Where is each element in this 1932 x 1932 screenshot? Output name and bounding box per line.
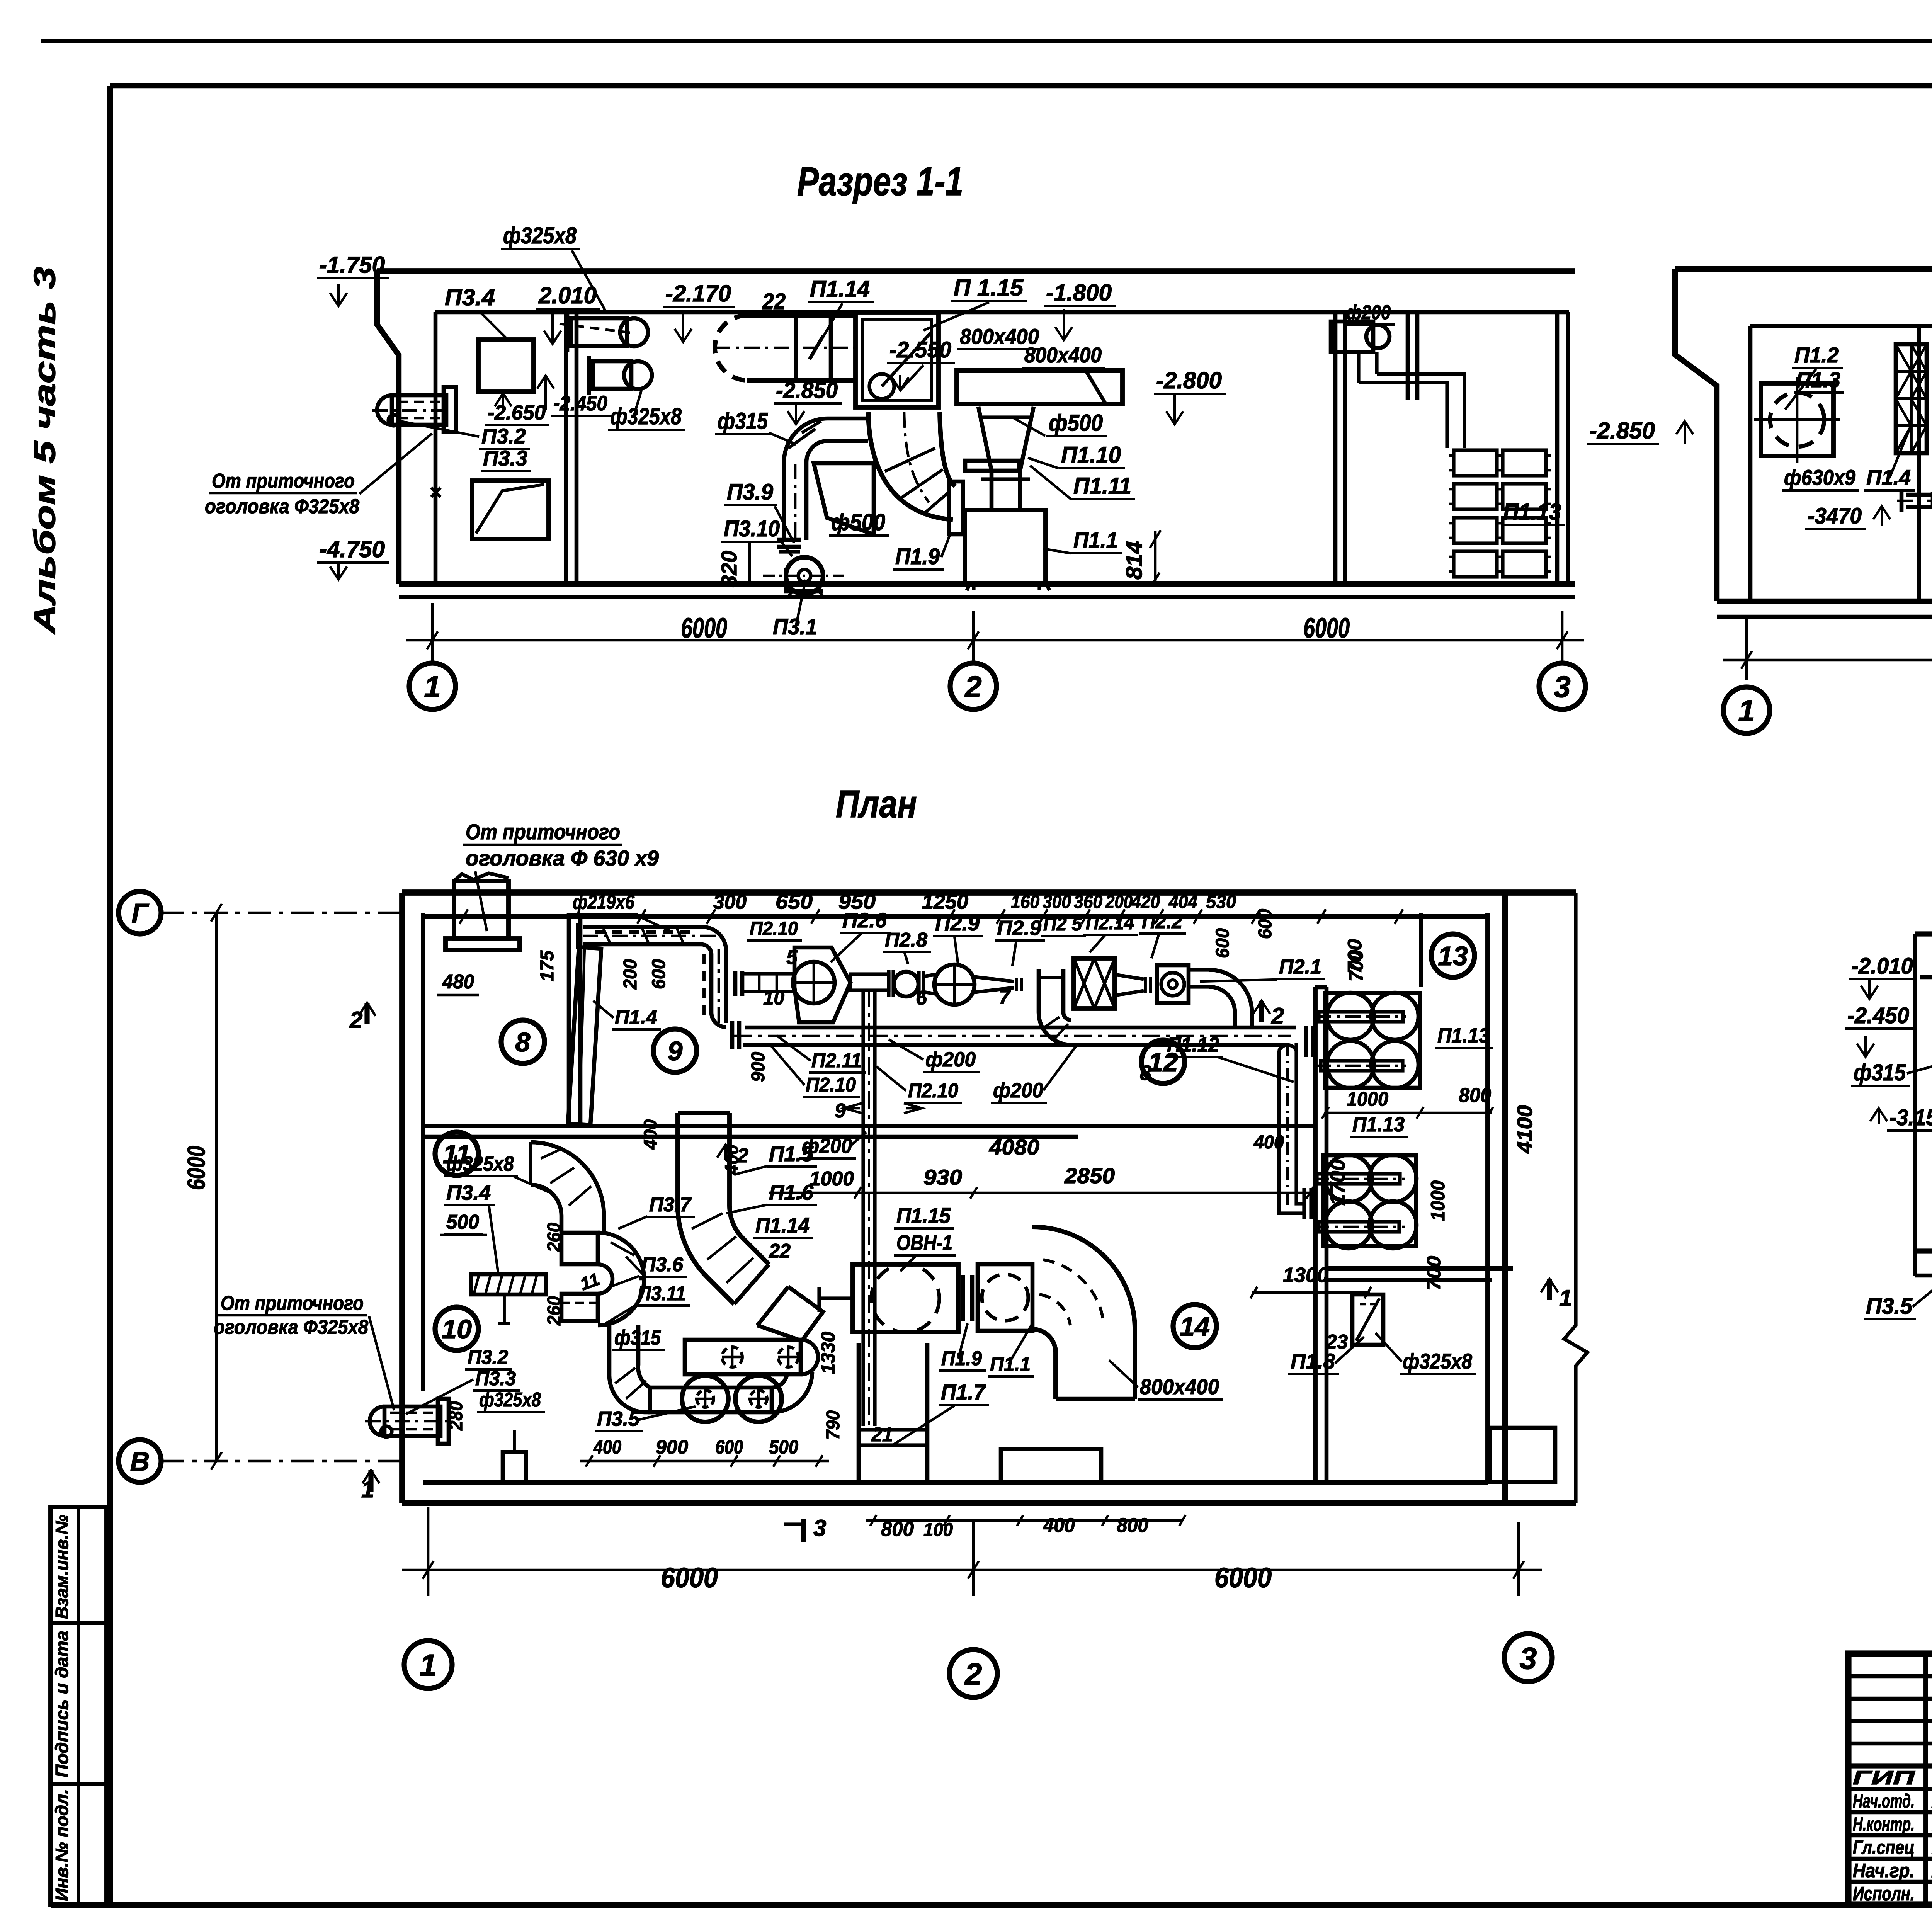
pipe ф219x6 horizontal	[1897, 471, 1932, 512]
duct П1.14 round end	[715, 315, 855, 380]
svg-text:9: 9	[835, 1100, 846, 1122]
label -2.170	[663, 281, 735, 342]
svg-text:9: 9	[668, 1036, 683, 1066]
room circle 12	[1141, 1040, 1185, 1083]
svg-text:ОВН-1: ОВН-1	[896, 1230, 952, 1255]
label П1.15	[923, 275, 1027, 330]
label П1.11	[1030, 466, 1135, 499]
svg-text:П1.1: П1.1	[1073, 528, 1118, 553]
duct П1.10 П1.11 vertical	[965, 461, 1030, 510]
axis Г	[119, 891, 402, 934]
plan axis circle 2	[949, 1650, 997, 1697]
grille with stem П3.4 plan	[471, 1274, 546, 1323]
labels П2.11 П2.10 mid	[777, 1036, 866, 1073]
label ф500 right	[1012, 410, 1107, 436]
svg-text:Гл.спец: Гл.спец	[1853, 1837, 1915, 1858]
interior wall right horizontal	[1327, 1266, 1513, 1271]
svg-text:4100: 4100	[1512, 1105, 1537, 1154]
svg-text:П1.3: П1.3	[1796, 367, 1840, 392]
svg-text:600: 600	[715, 1436, 743, 1458]
dim line mid	[769, 1187, 1315, 1199]
svg-text:1: 1	[1738, 694, 1755, 728]
svg-text:П1.4: П1.4	[615, 1006, 657, 1029]
labels П2 chain plan	[747, 918, 802, 940]
svg-text:П1.14: П1.14	[755, 1213, 810, 1237]
label П1.10	[1028, 442, 1125, 468]
plan bottom wall	[402, 1500, 1576, 1506]
label П1.7	[893, 1380, 989, 1445]
svg-text:800: 800	[1117, 1514, 1148, 1537]
svg-text:7: 7	[999, 986, 1011, 1009]
svg-text:П1.13: П1.13	[1437, 1024, 1490, 1047]
svg-text:П1.12: П1.12	[1167, 1033, 1219, 1056]
label П3.10	[721, 516, 792, 556]
room circle 10	[435, 1307, 478, 1350]
filter П2.14 plan	[1074, 958, 1115, 1009]
svg-text:П2.9: П2.9	[935, 912, 980, 935]
svg-text:-2.850: -2.850	[1589, 418, 1655, 444]
svg-text:П1.10: П1.10	[1061, 442, 1121, 468]
axis circle 1 s2	[1723, 687, 1770, 733]
label П1.14	[808, 276, 874, 344]
top dim chain	[459, 909, 1403, 924]
duct ф315 horizontal upper	[685, 1340, 818, 1374]
svg-text:-2.550: -2.550	[889, 337, 951, 362]
svg-text:1: 1	[1559, 1285, 1572, 1311]
svg-text:П3.3: П3.3	[475, 1367, 516, 1390]
svg-text:-2.450: -2.450	[553, 392, 607, 415]
elevation -2.850 s2	[1587, 418, 1693, 444]
svg-text:1000: 1000	[810, 1168, 854, 1190]
ceiling slab	[377, 268, 1575, 274]
unit П1.15	[855, 312, 939, 407]
svg-text:ф325х8: ф325х8	[446, 1152, 514, 1175]
fan П1.1	[965, 510, 1049, 590]
row Исполн.	[1853, 1883, 1932, 1905]
duct ф219x6 elbow + vertical	[701, 927, 739, 1049]
svg-text:8: 8	[1140, 1061, 1151, 1085]
axis В	[119, 1440, 402, 1482]
svg-text:ф500: ф500	[831, 509, 885, 535]
duct П1.5 П1.6 wide vertical	[678, 1113, 769, 1304]
vertical duct to bottom 21	[859, 1343, 927, 1481]
svg-text:900: 900	[656, 1436, 688, 1458]
label П1.9	[893, 533, 951, 570]
label П1.15 plan	[894, 1203, 954, 1228]
svg-text:П3.5: П3.5	[597, 1407, 640, 1430]
row ГИП	[1853, 1767, 1932, 1789]
label П1.8	[1288, 1337, 1364, 1374]
svg-text:П3.4: П3.4	[446, 1181, 491, 1204]
svg-text:ф630х9: ф630х9	[1784, 465, 1855, 490]
svg-text:ГИП: ГИП	[1853, 1767, 1915, 1789]
svg-text:6: 6	[916, 987, 927, 1009]
plan axis circle 3	[1504, 1634, 1552, 1682]
fan П2.9 plan	[933, 963, 1022, 1006]
label П1.12	[1165, 1033, 1294, 1082]
П3 system: left stub plan	[365, 1399, 450, 1444]
cone П1.14 plan	[734, 1264, 823, 1341]
svg-text:175: 175	[537, 950, 558, 981]
svg-text:П2.1: П2.1	[1279, 955, 1321, 978]
duct stub ф325x8 upper	[560, 313, 648, 352]
svg-text:П 1.15: П 1.15	[954, 275, 1024, 301]
label -2.550	[887, 337, 955, 390]
svg-text:П2.6: П2.6	[842, 909, 887, 932]
svg-text:300: 300	[1043, 892, 1071, 912]
bottom dims 800 100 400 800	[866, 1514, 1185, 1541]
svg-text:260: 260	[544, 1296, 565, 1326]
svg-text:ф315: ф315	[1854, 1060, 1906, 1085]
svg-text:П2.11: П2.11	[811, 1049, 862, 1072]
svg-text:ф500: ф500	[1049, 410, 1103, 436]
label -3470	[1805, 503, 1890, 529]
partition wall 2	[1333, 312, 1338, 584]
svg-text:200: 200	[1105, 892, 1133, 912]
louver П1.4 slanted	[568, 947, 601, 1125]
svg-text:От приточного: От приточного	[466, 820, 620, 844]
label П3.1	[770, 580, 821, 640]
label -2.850	[774, 378, 842, 424]
label П1.4 plan	[593, 1001, 661, 1029]
label 3 cut top	[0, 0, 0, 0]
svg-text:Разрез 1-1: Разрез 1-1	[797, 159, 963, 204]
svg-text:П1.6: П1.6	[769, 1180, 814, 1204]
label ф500 duct	[829, 509, 889, 536]
svg-text:3: 3	[1554, 670, 1570, 704]
label П1.1	[1043, 528, 1122, 553]
box П3.4	[478, 340, 534, 392]
partition wall 3 short	[1406, 312, 1410, 400]
svg-text:500: 500	[446, 1211, 479, 1233]
interior wall horizontal mid	[423, 1124, 1315, 1128]
svg-text:ф200: ф200	[925, 1048, 976, 1071]
heater bank П1.13 plan top	[1306, 993, 1420, 1088]
svg-text:П3.10: П3.10	[724, 516, 780, 541]
cut mark 2 mid	[717, 1145, 748, 1167]
svg-text:6000: 6000	[1303, 613, 1350, 644]
fans П3.5 twin circles	[682, 1376, 782, 1422]
label ф219x6 plan	[570, 891, 672, 932]
duct П1.12 vertical right	[1279, 1043, 1304, 1213]
elevation -1.750	[317, 252, 389, 306]
label ф630x9 П1.4	[1782, 425, 1915, 490]
svg-text:-4.750: -4.750	[319, 536, 385, 562]
svg-text:Инв.№ подл.: Инв.№ подл.	[52, 1789, 72, 1901]
svg-text:П1.8: П1.8	[1291, 1349, 1335, 1373]
svg-text:2.010: 2.010	[538, 282, 597, 308]
svg-text:П3.1: П3.1	[773, 614, 817, 639]
svg-text:6000: 6000	[1214, 1563, 1272, 1594]
svg-text:1: 1	[420, 1648, 437, 1682]
label 9 arrows	[835, 1100, 922, 1122]
inlet stub duct П3.2 П3.3	[372, 387, 456, 497]
label П1.6	[726, 1180, 817, 1213]
svg-text:530: 530	[1206, 892, 1236, 912]
svg-text:П1.1: П1.1	[990, 1353, 1031, 1376]
label П1.3 s2	[1794, 367, 1844, 393]
svg-text:1330: 1330	[817, 1332, 839, 1374]
S-curve duct ф500 from П1.15	[868, 412, 963, 534]
plan right wall	[1502, 893, 1508, 1503]
label -1.800	[1044, 280, 1116, 340]
svg-text:260: 260	[544, 1223, 565, 1252]
svg-text:300: 300	[713, 891, 747, 913]
svg-text:П3.11: П3.11	[638, 1282, 686, 1305]
svg-text:800х400: 800х400	[1140, 1374, 1219, 1399]
plan top wall	[402, 889, 1576, 896]
svg-text:280: 280	[446, 1401, 466, 1431]
svg-text:400: 400	[641, 1119, 661, 1150]
svg-text:Нач.отд.: Нач.отд.	[1853, 1790, 1915, 1812]
svg-text:П1.13: П1.13	[1352, 1113, 1405, 1136]
svg-text:360: 360	[1074, 892, 1102, 912]
label ф315	[715, 408, 796, 444]
svg-text:П3.6: П3.6	[641, 1253, 684, 1276]
label 1 cut right	[1541, 1279, 1572, 1311]
ф200 duct right room	[1331, 301, 1464, 448]
partition 2-2 a	[1917, 326, 1921, 601]
svg-text:2850: 2850	[1064, 1163, 1115, 1188]
floor 3-3	[1915, 1248, 1932, 1253]
svg-text:П1.7: П1.7	[941, 1380, 986, 1404]
labels П3 plan	[444, 1152, 549, 1192]
bottom-left step box	[503, 1430, 526, 1482]
label П3.3	[481, 446, 531, 471]
svg-text:1300: 1300	[1283, 1264, 1328, 1287]
svg-text:800: 800	[1459, 1084, 1491, 1107]
right wall	[1555, 312, 1560, 584]
svg-text:600: 600	[1255, 909, 1276, 939]
air intake П1.2 П1.3 square	[1754, 377, 1840, 463]
note от приточного оголовка	[205, 434, 432, 518]
dim line 1000 800	[1322, 1107, 1493, 1119]
label П1.13 plan top	[1435, 1024, 1493, 1048]
П2 chain: start duct with flanges	[735, 971, 794, 996]
svg-text:П1.15: П1.15	[896, 1203, 951, 1228]
svg-text:ф315: ф315	[718, 408, 768, 434]
U-duct П3.6 П3.11	[561, 1233, 644, 1325]
label -2.800	[1154, 367, 1226, 424]
svg-text:700: 700	[1423, 1256, 1445, 1291]
svg-text:814: 814	[1122, 541, 1147, 580]
elbow down П2 to run	[1039, 969, 1071, 1045]
heater bank П1.13	[1449, 450, 1551, 577]
dim line 6000 6000 section 1-1	[406, 603, 1584, 665]
top outer trim line	[41, 39, 1932, 43]
svg-text:ф325х8: ф325х8	[1403, 1349, 1473, 1373]
dim texts top row	[713, 890, 1236, 913]
svg-text:П2.8: П2.8	[885, 929, 927, 951]
label 2 cut top right	[1253, 1001, 1284, 1029]
plan right break line	[1564, 893, 1587, 1503]
label П1.5	[734, 1141, 817, 1175]
svg-text:-2.450: -2.450	[1847, 1003, 1909, 1028]
row Нач.отд.	[1853, 1790, 1932, 1812]
svg-text:160: 160	[1011, 892, 1039, 912]
axis circle 3	[1539, 663, 1585, 709]
left wall	[377, 271, 399, 584]
svg-text:2: 2	[964, 670, 981, 704]
svg-text:От приточного: От приточного	[221, 1292, 364, 1315]
svg-text:2: 2	[964, 1657, 982, 1691]
fan П3.1 with П3.9 П3.10	[763, 540, 846, 597]
svg-text:900: 900	[748, 1052, 769, 1082]
svg-text:500: 500	[769, 1436, 798, 1458]
ceiling 3-3	[1915, 931, 1932, 936]
heater bank П1.13 plan bottom	[1304, 1155, 1417, 1248]
svg-text:930: 930	[923, 1165, 962, 1189]
svg-text:1000: 1000	[1347, 1088, 1388, 1111]
label П1.13 plan bottom	[1350, 1113, 1408, 1137]
svg-text:П1.5: П1.5	[769, 1141, 814, 1166]
bottom small dims	[580, 1436, 829, 1467]
label 800x400 a	[957, 324, 1043, 349]
svg-text:оголовка Ф 630 х9: оголовка Ф 630 х9	[466, 846, 659, 870]
svg-text:650: 650	[776, 890, 813, 913]
fan П2.6 plan	[793, 947, 850, 1022]
bottom right box	[1490, 1428, 1555, 1482]
flange П1.9 plan	[963, 1275, 972, 1321]
svg-text:800х400: 800х400	[1024, 343, 1102, 367]
svg-text:П2.9: П2.9	[997, 917, 1041, 940]
svg-text:П1.14: П1.14	[810, 276, 870, 302]
svg-text:оголовка Ф325х8: оголовка Ф325х8	[214, 1316, 368, 1338]
left column boxes	[51, 1507, 107, 1905]
svg-text:2: 2	[737, 1145, 748, 1167]
svg-text:21: 21	[871, 1423, 893, 1446]
svg-text:600: 600	[1213, 928, 1233, 958]
svg-text:400: 400	[1043, 1514, 1075, 1537]
axis circle 1	[409, 663, 456, 709]
svg-text:Исполн.: Исполн.	[1853, 1883, 1915, 1905]
row Н.контр.	[1853, 1813, 1932, 1835]
duct lower with bend up	[650, 1372, 812, 1412]
svg-text:-2.170: -2.170	[665, 281, 731, 306]
svg-text:Взам.инв.№: Взам.инв.№	[52, 1515, 72, 1619]
title block main outline	[1848, 1654, 1932, 1905]
label 3 cut bottom	[784, 1515, 826, 1542]
svg-text:320: 320	[717, 551, 741, 587]
label -2.450	[537, 376, 611, 416]
plenum 800x400	[957, 371, 1122, 404]
svg-text:-3470: -3470	[1808, 503, 1862, 529]
label ОВН-1	[894, 1230, 956, 1271]
svg-text:480: 480	[442, 971, 474, 993]
svg-text:1250: 1250	[922, 890, 968, 913]
svg-text:ф219х6: ф219х6	[573, 891, 635, 913]
svg-text:1: 1	[424, 670, 440, 704]
fan П1.1 plan	[978, 1264, 1032, 1331]
fan П2.1 plan	[1115, 965, 1189, 1003]
duct ф200 long horizontal	[734, 1027, 1296, 1045]
svg-text:100: 100	[923, 1520, 953, 1540]
label П1.14 plan	[753, 1213, 813, 1238]
room circle 13	[1431, 934, 1475, 977]
svg-text:П2.14: П2.14	[1086, 912, 1134, 934]
label ф325x8 top	[501, 223, 607, 313]
svg-text:-2.800: -2.800	[1156, 367, 1222, 393]
big elbow 800x400 plan	[1032, 1227, 1135, 1399]
svg-text:Подпись и дата: Подпись и дата	[52, 1631, 72, 1777]
note от приточного оголовка 630x9	[463, 820, 659, 931]
label 2 cut top	[349, 1003, 376, 1033]
plan left wall	[399, 893, 405, 1503]
svg-text:П3.2: П3.2	[468, 1346, 508, 1369]
svg-text:400: 400	[1253, 1132, 1284, 1153]
elbow down right of П2.1	[1189, 970, 1252, 1027]
label 2.010	[536, 282, 600, 344]
row Гл.спец	[1853, 1837, 1932, 1858]
label ф200 c	[799, 1132, 866, 1158]
label ф200 a	[889, 1039, 980, 1072]
svg-text:400: 400	[593, 1436, 621, 1458]
interior wall rooms 8/9	[567, 913, 571, 1126]
room circle 14	[1173, 1304, 1216, 1348]
room circle 11	[435, 1132, 478, 1175]
dim line 1300	[1250, 1287, 1371, 1298]
svg-text:П3.7: П3.7	[649, 1194, 692, 1216]
svg-text:П2 5: П2 5	[1043, 913, 1082, 935]
wall segment top right vertical	[1419, 913, 1423, 987]
svg-text:3: 3	[1520, 1641, 1537, 1675]
label П1.9 plan	[939, 1323, 986, 1371]
svg-text:П3.4: П3.4	[445, 284, 495, 310]
svg-text:ф200: ф200	[1346, 301, 1391, 324]
svg-text:200: 200	[620, 959, 641, 990]
small box П1.8	[1352, 1294, 1383, 1345]
dim 480	[437, 971, 479, 995]
label П1.13 s1	[1501, 499, 1565, 525]
inner ceiling line	[435, 310, 1569, 315]
svg-text:1000: 1000	[1427, 1180, 1449, 1221]
label ф325x8 lower	[608, 390, 685, 430]
label ф200 b	[991, 1043, 1078, 1103]
svg-text:Г: Г	[132, 898, 150, 928]
main frame bottom border	[51, 1902, 1932, 1908]
svg-text:ф200: ф200	[993, 1079, 1043, 1102]
svg-text:План: План	[836, 782, 917, 826]
svg-text:П3.2: П3.2	[481, 424, 526, 448]
svg-text:От приточного: От приточного	[212, 470, 355, 492]
svg-text:Н.контр.: Н.контр.	[1853, 1813, 1915, 1835]
svg-text:Нач.гр.: Нач.гр.	[1853, 1860, 1915, 1881]
svg-text:-1.750: -1.750	[319, 252, 385, 278]
svg-text:П3.3: П3.3	[483, 446, 527, 470]
label 800x400 plan	[1109, 1360, 1223, 1400]
plan bottom dim line	[402, 1507, 1542, 1596]
duct ф219x6 horizontal top	[578, 923, 719, 949]
duct down to fans	[609, 1325, 650, 1412]
floor 2-2	[1717, 599, 1932, 604]
row Нач.гр.	[1853, 1860, 1932, 1881]
left wall 3-3	[1913, 934, 1917, 1276]
svg-text:ф315: ф315	[614, 1326, 661, 1349]
elevation -4.750	[317, 536, 389, 580]
label П3.4	[442, 284, 506, 338]
svg-text:22: 22	[762, 289, 786, 314]
dim line 6000 2-2	[1723, 618, 1932, 680]
svg-text:600: 600	[649, 959, 669, 989]
svg-text:404: 404	[1168, 892, 1197, 912]
svg-text:П1.9: П1.9	[895, 544, 940, 569]
label П3.9	[724, 480, 794, 543]
label П1.1 plan	[988, 1323, 1034, 1376]
svg-text:-1.800: -1.800	[1046, 280, 1112, 306]
svg-text:П2.10: П2.10	[750, 918, 798, 939]
svg-text:ф325х8: ф325х8	[610, 403, 682, 429]
label П3.2	[400, 421, 530, 449]
